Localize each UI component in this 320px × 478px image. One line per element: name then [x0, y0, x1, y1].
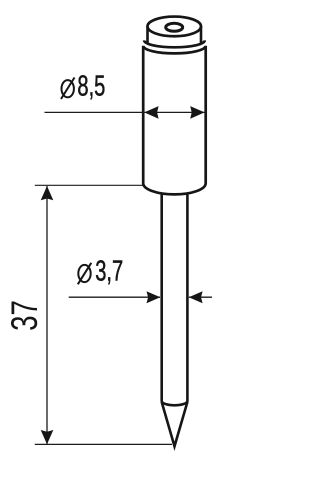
shaft left wall — [160, 192, 163, 402]
shaft bottom edge arc — [162, 401, 188, 405]
dimension 37 vertical line — [46, 186, 48, 444]
arrow left-pointing at shaft right wall — [189, 291, 203, 303]
svg-text:37: 37 — [3, 300, 45, 331]
flange tier (step under cap) — [144, 40, 205, 47]
arrow right of Ø8,5 — [190, 106, 204, 119]
arrow up of 37 — [41, 186, 54, 200]
dimension line Ø8,5 — [45, 111, 206, 113]
shaft right wall — [186, 192, 189, 402]
cone tip — [162, 402, 188, 446]
cap left wall — [146, 26, 149, 43]
main body cylinder — [143, 46, 206, 195]
svg-text:3,7: 3,7 — [95, 256, 123, 287]
cap hole — [166, 23, 183, 31]
text Ø8,5 — [61, 71, 105, 102]
extension line bottom — [35, 443, 172, 445]
extension line top — [35, 184, 143, 186]
cap right wall — [200, 26, 203, 43]
arrow down of 37 — [41, 430, 54, 444]
svg-text:8,5: 8,5 — [77, 71, 105, 102]
arrow right-pointing at shaft left wall — [147, 291, 161, 303]
text Ø3,7 — [78, 256, 123, 287]
dimension lines Ø3,7 — [69, 296, 160, 298]
arrow left of Ø8,5 — [144, 106, 158, 119]
cap top ellipse — [148, 17, 202, 37]
